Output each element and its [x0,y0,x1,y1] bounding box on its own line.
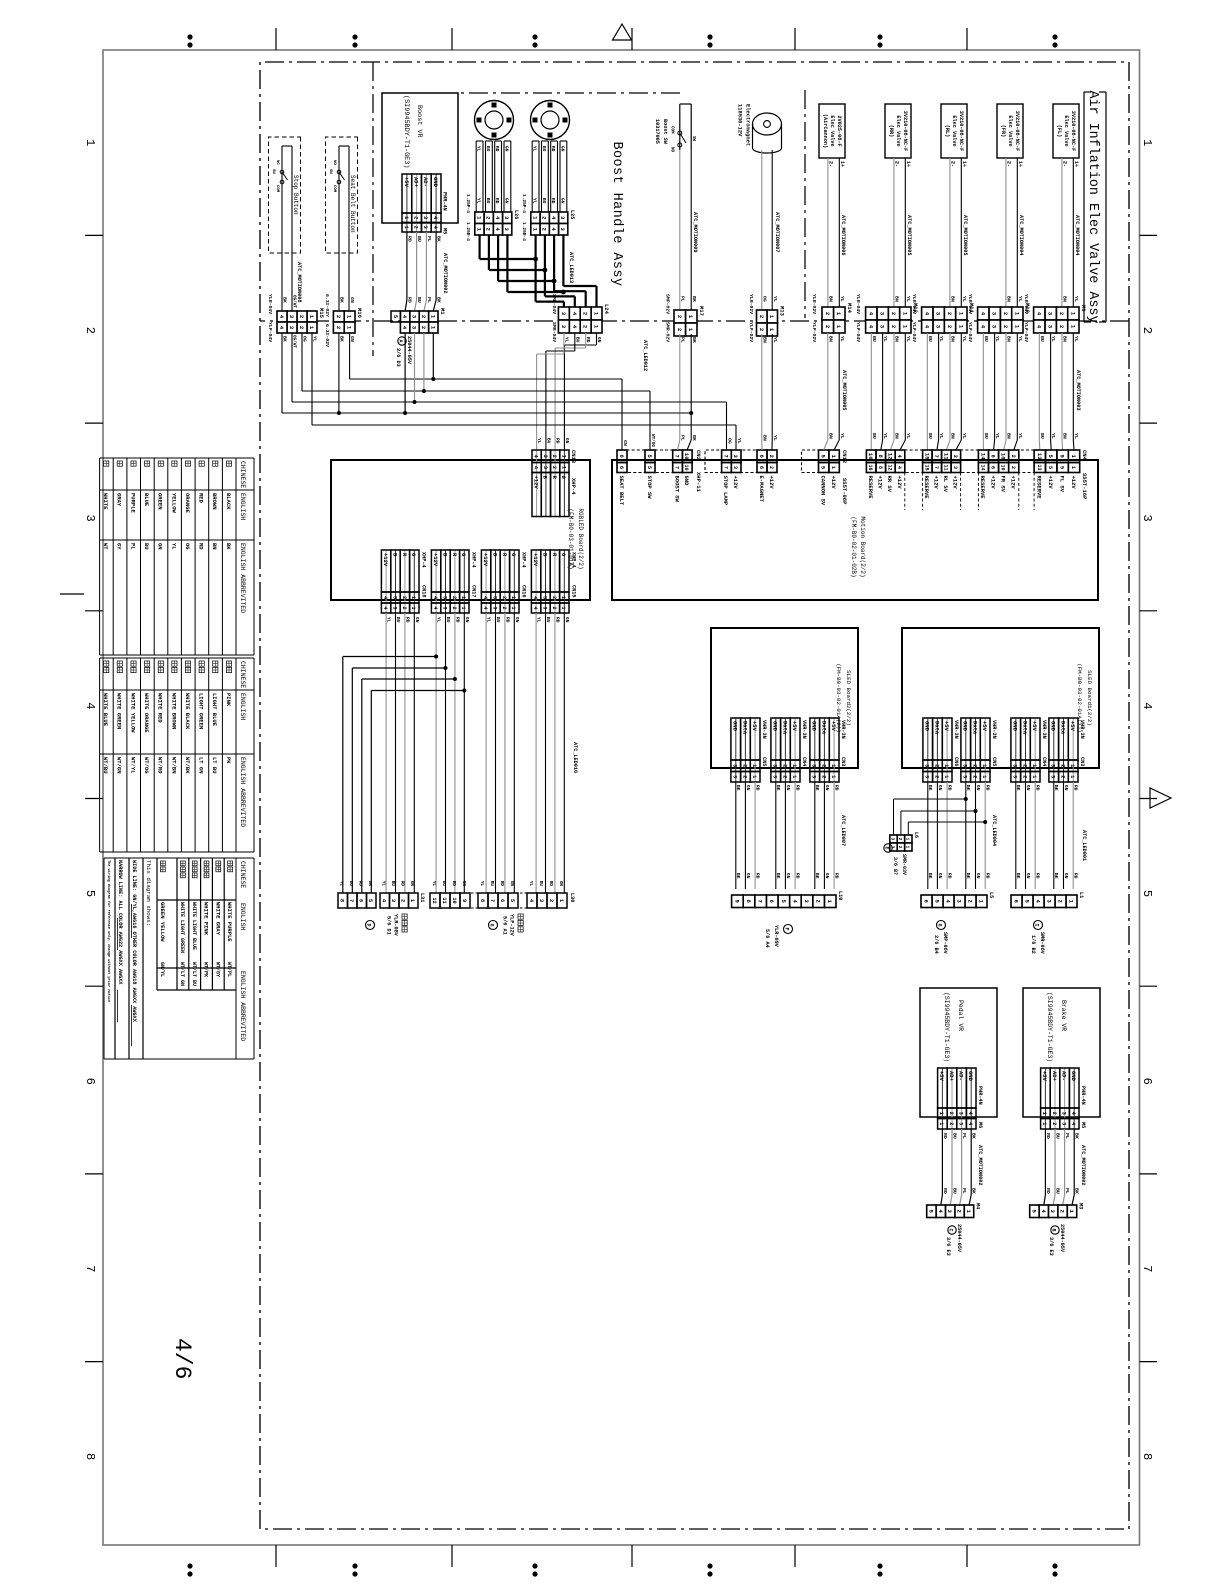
svg-text:WT/PL: WT/PL [226,962,232,977]
svg-text:GRAY: GRAY [116,493,123,507]
svg-text:25044-05V: 25044-05V [406,336,412,365]
connector L1 [1066,895,1077,908]
svg-text:RD: RD [985,785,991,791]
svg-text:BK: BK [775,785,781,791]
svg-text:2: 2 [420,326,427,329]
connector M4 [964,1205,973,1218]
svg-text:16: 16 [867,464,873,470]
wires stop button to M15 [291,244,293,311]
svg-text:BN: BN [827,296,833,302]
svg-text:BK: BK [1015,873,1021,879]
svg-text:BK: BK [691,435,697,441]
svg-text:BU: BU [445,617,451,623]
svg-text:6: 6 [758,466,764,469]
svg-text:BN: BN [828,336,834,342]
svg-text:BU: BU [545,438,551,444]
svg-text:GN: GN [785,785,791,791]
svg-text:2: 2 [485,228,492,231]
svg-text:WT/PK: WT/PK [203,962,209,977]
svg-text:M13: M13 [779,306,786,317]
svg-text:RD: RD [454,617,460,623]
svg-text:BU: BU [574,337,580,343]
svg-text:YELLOW: YELLOW [170,493,177,514]
svg-text:RED: RED [198,493,205,504]
svg-text:BN: BN [762,337,768,343]
svg-text:YL: YL [961,433,967,439]
svg-text:PL: PL [129,543,136,550]
svg-text:1: 1 [460,606,466,609]
svg-text:10: 10 [683,464,689,470]
svg-text:2: 2 [551,466,557,469]
svg-text:WHITE BROWN: WHITE BROWN [170,693,177,729]
svg-text:2: 2 [83,327,97,334]
svg-text:WT/LT GN: WT/LT GN [179,962,185,986]
svg-text:RD: RD [499,881,504,887]
svg-text:ATC_LED004: ATC_LED004 [991,815,997,846]
svg-text:YL: YL [1017,336,1023,342]
svg-text:+12V: +12V [732,476,739,490]
svg-text:(SI9945BDY-T1-GE3): (SI9945BDY-T1-GE3) [402,95,410,168]
svg-text:M5: M5 [442,228,448,234]
svg-text:XHP-4: XHP-4 [471,552,477,568]
svg-text:+12V: +12V [1010,476,1017,490]
svg-text:+12V: +12V [989,476,996,490]
svg-text:ATC_MOTION005: ATC_MOTION005 [906,215,912,255]
svg-text:3: 3 [1060,1122,1066,1125]
svg-text:GREEN YELLOW: GREEN YELLOW [159,902,166,942]
svg-text:VHR-3N: VHR-3N [1079,720,1085,739]
svg-text:RD: RD [755,785,761,791]
wires L25 bus to L24 thick [562,235,564,286]
svg-text:3: 3 [541,606,547,609]
svg-text:ATC_LED013: ATC_LED013 [568,252,574,283]
svg-text:BU: BU [541,146,547,152]
connector M10 [1012,307,1023,320]
svg-text:BN: BN [1006,433,1012,439]
svg-text:GN: GN [975,873,981,879]
svg-text:BU: BU [495,617,501,623]
svg-text:2: 2 [768,455,775,458]
svg-text:F: F [784,927,790,930]
svg-text:BU: BU [538,881,543,887]
svg-text:PL: PL [961,1133,967,1139]
wire valve (RR) pin1 [904,158,906,307]
wire valve (RL) pin2 [949,158,951,307]
svg-text:RR SV: RR SV [886,476,893,493]
svg-text:CN3: CN3 [1079,757,1085,766]
svg-text:1+: 1+ [1017,161,1023,167]
svg-text:RD: RD [795,873,801,879]
legend table A basic colors [100,457,254,459]
svg-text:2: 2 [582,325,589,328]
legend table B white-striped colors [100,657,254,659]
svg-text:4: 4 [896,466,902,469]
svg-text:10317005: 10317005 [654,119,660,144]
svg-text:7: 7 [1140,1265,1154,1272]
svg-text:2: 2 [401,606,407,609]
svg-text:XHP-4: XHP-4 [571,552,577,568]
svg-text:YL: YL [436,617,442,623]
svg-text:14: 14 [979,464,985,470]
tail rear harness label [402,914,407,919]
svg-text:STOP SW: STOP SW [646,476,653,500]
svg-text:PL: PL [426,297,432,303]
electromagnet symbol [753,113,782,135]
svg-text:4: 4 [83,702,97,709]
svg-text:RL SV: RL SV [942,476,949,493]
wires electromagnet to M13 [771,150,773,310]
svg-text:2: 2 [781,775,787,778]
svg-text:RD: RD [494,198,500,204]
L1 harness label [1034,921,1043,930]
svg-text:CANNON SV: CANNON SV [820,476,827,506]
svg-text:RD: RD [585,337,591,343]
svg-text:12: 12 [431,897,437,903]
svg-text:SMR-06V: SMR-06V [1039,932,1045,955]
svg-text:2: 2 [758,315,765,318]
svg-text:YL: YL [994,433,1000,439]
connector L24 [591,307,602,320]
svg-text:GN: GN [157,543,164,550]
elec valve box (RR) [885,104,911,158]
svg-text:3: 3 [491,596,497,599]
svg-text:7: 7 [348,899,354,902]
connector M16 [344,311,355,322]
svg-text:RD: RD [942,1133,948,1139]
connector M3 [1067,1205,1076,1218]
svg-text:YL: YL [339,881,344,887]
wire bus black common [282,412,691,414]
Brake VR box [1023,988,1100,1117]
wires L24 to CN13 with jog [596,333,598,345]
svg-text:6: 6 [83,1078,97,1085]
svg-text:Brake VR: Brake VR [1060,1000,1067,1031]
svg-text:6: 6 [990,466,996,469]
svg-text:BU: BU [416,236,422,242]
svg-text:2-: 2- [949,161,955,167]
svg-text:BN: BN [1062,433,1068,439]
svg-text:WHITE RED: WHITE RED [157,693,164,723]
svg-text:3: 3 [422,226,428,229]
svg-text:4: 4 [533,455,539,458]
svg-text:BN: BN [894,433,900,439]
svg-text:ATC_MOTION009: ATC_MOTION009 [692,212,698,252]
svg-text:3: 3 [811,764,817,767]
connector CN2 XHP-11 [767,450,777,463]
svg-text:YLR-09V: YLR-09V [773,925,779,948]
svg-text:2: 2 [781,764,787,767]
wires M to CN4 group 4 [904,333,906,440]
svg-text:YL: YL [431,881,436,887]
svg-text:1+: 1+ [839,161,845,167]
svg-text:(FM-B0-02-01-02B): (FM-B0-02-01-02B) [850,516,857,577]
svg-text:10: 10 [683,453,690,460]
svg-text:SEAT BELT: SEAT BELT [618,476,625,506]
svg-text:SMR-03V: SMR-03V [901,854,907,875]
svg-text:The wiring diagram for referen: The wiring diagram for reference only, c… [106,860,111,1002]
svg-text:2: 2 [676,315,683,318]
svg-text:GN: GN [596,337,602,343]
svg-text:RD: RD [554,617,560,623]
svg-text:BU: BU [395,617,401,623]
svg-text:YL: YL [839,296,845,302]
connector M14 air cannon [834,307,846,320]
svg-text:2: 2 [298,326,305,329]
svg-text:M3: M3 [1078,1203,1084,1209]
svg-text:+12V: +12V [933,476,940,490]
svg-text:2V025-08-F: 2V025-08-F [836,115,842,146]
svg-text:2: 2 [741,775,747,778]
svg-text:ENGLISH ABBREVITED: ENGLISH ABBREVITED [239,757,246,827]
svg-text:BU: BU [1055,1188,1061,1194]
title Air Inflation Elec Valve Assy [1105,92,1107,322]
svg-text:2: 2 [676,328,683,331]
svg-text:8: 8 [479,899,485,902]
svg-text:G: G [489,923,495,926]
svg-text:2: 2 [768,466,774,469]
svg-text:25044-05V: 25044-05V [956,1224,962,1253]
svg-text:2: 2 [420,315,427,318]
svg-text:2-: 2- [1061,161,1067,167]
svg-text:M4: M4 [975,1203,981,1209]
svg-text:YL: YL [381,881,386,887]
svg-text:BN: BN [950,336,956,342]
svg-text:CN5: CN5 [991,757,997,766]
svg-text:4: 4 [1140,702,1154,709]
wires CN15 to tail-light bus [563,613,565,893]
svg-text:M6: M6 [977,1122,983,1128]
svg-text:1: 1 [1140,139,1154,146]
connector M12 [900,307,911,320]
svg-text:3V210-08-NC-F: 3V210-08-NC-F [1014,111,1020,151]
svg-text:3: 3 [542,466,548,469]
svg-text:ENGLISH: ENGLISH [239,693,246,720]
boost switch symbol [690,104,692,150]
svg-text:BN: BN [949,296,955,302]
svg-text:3: 3 [1012,775,1018,778]
svg-text:COM: COM [332,185,336,193]
svg-text:3: 3 [811,775,817,778]
svg-text:1: 1 [830,775,836,778]
svg-text:BN: BN [1062,336,1068,342]
svg-text:7: 7 [674,455,681,458]
boost handle LED ring 2 [475,101,514,140]
svg-text:GN: GN [409,881,414,887]
svg-text:SW: SW [691,136,695,142]
svg-text:1: 1 [410,606,416,609]
svg-text:1: 1 [510,596,516,599]
svg-text:WHITE GRAY: WHITE GRAY [214,902,221,936]
svg-text:RD: RD [550,198,556,204]
RGBLED board rectangle [331,460,590,600]
svg-text:6: 6 [1140,1078,1154,1085]
assembly boundary dash-dot frame [260,62,1129,1529]
svg-text:CN2: CN2 [695,450,702,460]
svg-text:5: 5 [1140,890,1154,897]
svg-text:AD+: AD+ [413,177,420,188]
svg-text:5/6 A1: 5/6 A1 [502,916,508,935]
svg-text:2: 2 [1002,325,1009,328]
svg-text:Data: Data [933,721,940,735]
section partition dash-dot line (connector interface) [260,320,1129,322]
svg-text:ORANGE: ORANGE [184,493,191,514]
wires CN4 board1 [1034,782,1036,889]
wire valve (AirCannon) pin1 [838,158,840,307]
boost VR box [382,93,458,223]
svg-text:1: 1 [560,596,566,599]
svg-text:GN/YL: GN/YL [159,962,165,977]
svg-text:AD-: AD- [422,177,429,187]
svg-text:ENGLISH: ENGLISH [239,903,246,930]
wires boost switch to M17 [690,150,692,310]
svg-text:2: 2 [335,315,342,318]
svg-text:+12V: +12V [482,553,489,567]
svg-text:SMR-04V: SMR-04V [551,322,557,342]
svg-text:3: 3 [491,606,497,609]
svg-text:LT BU: LT BU [211,757,218,774]
svg-text:RD: RD [1073,873,1079,879]
svg-text:SLED Board2(2/2): SLED Board2(2/2) [845,670,852,726]
svg-text:A: A [398,339,404,342]
svg-text:2: 2 [1140,327,1154,334]
svg-text:10: 10 [1000,464,1006,470]
svg-text:M11: M11 [968,303,975,314]
svg-text:12: 12 [886,453,893,460]
svg-text:1: 1 [791,764,797,767]
svg-text:BK: BK [1053,873,1059,879]
svg-text:25044-05V: 25044-05V [1059,1224,1065,1253]
svg-text:NC: NC [275,160,279,165]
svg-text:3: 3 [538,899,544,902]
wires M13 to CN2 [771,334,773,440]
svg-text:3: 3 [422,216,428,219]
Pedal VR box [920,988,997,1117]
svg-text:3: 3 [1140,514,1154,521]
svg-text:SS5T-08P: SS5T-08P [841,478,848,505]
svg-text:YLP-04V: YLP-04V [967,322,973,342]
svg-text:NO: NO [332,160,336,165]
svg-text:2: 2 [824,325,831,328]
svg-text:7: 7 [489,899,495,902]
wires CN18 to tail-light bus [413,613,415,893]
svg-text:+12V: +12V [768,476,775,490]
svg-text:WHITE PINK: WHITE PINK [203,902,210,936]
svg-text:YLR-02V: YLR-02V [811,294,817,314]
svg-text:WIDE LINE: GN/YL,AWG16 OTHER: WIDE LINE: GN/YL,AWG16 OTHER COLOR AWG18… [131,860,137,1023]
svg-text:GND: GND [772,721,779,732]
wire valve (RL) pin1 [960,158,962,307]
svg-text:YLP-02V: YLP-02V [811,322,817,342]
tail front harness label [518,914,523,919]
svg-text:GN: GN [367,881,372,887]
svg-text:3: 3 [391,596,397,599]
svg-text:BK: BK [339,297,345,303]
svg-text:BU: BU [952,1188,958,1194]
svg-text:BK: BK [735,785,741,791]
svg-text:3: 3 [391,606,397,609]
svg-text:RD: RD [400,881,405,887]
svg-text:RD: RD [550,146,556,152]
wires CN16 to tail-light bus [513,613,515,893]
svg-text:YLR-04V: YLR-04V [855,294,861,314]
svg-text:RD: RD [1045,1188,1051,1194]
motion board rectangle [612,460,1098,600]
L5 harness label [937,921,946,930]
svg-text:PL: PL [680,435,686,441]
svg-text:B: B [1051,1228,1057,1231]
svg-text:XHP-4: XHP-4 [570,478,577,495]
svg-text:GN: GN [1063,873,1069,879]
svg-text:GN: GN [503,146,509,152]
svg-text:YL: YL [1073,433,1079,439]
svg-text:11: 11 [942,464,948,470]
svg-text:RD: RD [834,785,840,791]
svg-text:2: 2 [451,606,457,609]
svg-text:6: 6 [1013,900,1020,903]
svg-text:6: 6 [768,900,775,903]
svg-text:BU: BU [871,336,877,342]
svg-text:Data: Data [820,721,827,735]
svg-text:GN: GN [349,297,355,303]
svg-text:3/6 B7: 3/6 B7 [892,857,898,875]
svg-text:8: 8 [83,1453,97,1460]
svg-text:BROWN: BROWN [211,493,218,510]
svg-text:CHINESE: CHINESE [239,461,246,488]
svg-text:2: 2 [1021,775,1027,778]
svg-text:YL: YL [736,438,742,444]
svg-text:(AirCannon): (AirCannon) [822,114,828,148]
svg-text:7: 7 [933,455,940,458]
svg-text:CN4: CN4 [801,757,807,766]
svg-text:2: 2 [551,596,557,599]
svg-text:10: 10 [451,897,457,903]
svg-text:BN: BN [211,543,218,550]
boost handle LED ring 1 [531,101,570,140]
svg-text:L31: L31 [419,893,425,902]
svg-text:M1: M1 [439,308,446,315]
svg-text:BN: BN [894,336,900,342]
svg-text:Boost Handle Assy: Boost Handle Assy [609,141,624,286]
svg-text:WHITE LIGHT BLUE: WHITE LIGHT BLUE [191,902,197,950]
svg-text:WT/GN: WT/GN [116,757,123,774]
svg-text:YL: YL [1017,433,1023,439]
svg-text:13: 13 [1036,464,1042,470]
svg-text:BK: BK [965,873,971,879]
svg-text:GN: GN [559,146,565,152]
wide wire channels LED ring1 to L25 [566,141,568,212]
svg-text:(SI9945BDY-T1-GE3): (SI9945BDY-T1-GE3) [943,992,950,1062]
svg-text:YL: YL [938,433,944,439]
svg-text:Pedal VR: Pedal VR [957,1000,964,1031]
svg-text:6: 6 [499,899,505,902]
stop button dashed box [269,137,301,253]
svg-text:RGBLED Board(2/2): RGBLED Board(2/2) [577,508,584,569]
svg-text:+5V: +5V [1069,721,1076,732]
svg-text:M14: M14 [846,303,853,314]
svg-text:7: 7 [933,466,939,469]
svg-text:RD: RD [451,881,456,887]
svg-text:2: 2 [956,1210,963,1213]
svg-text:L25: L25 [569,210,575,219]
svg-text:YL: YL [961,296,967,302]
wires CN5 board1 [984,782,986,889]
svg-text:PL: PL [961,1188,967,1194]
svg-text:PL: PL [1064,1133,1070,1139]
svg-text:BK: BK [965,785,971,791]
elec valve box (FR) [997,104,1023,158]
svg-text:LIGHT BLUE: LIGHT BLUE [211,693,218,727]
svg-text:RD: RD [548,881,553,887]
